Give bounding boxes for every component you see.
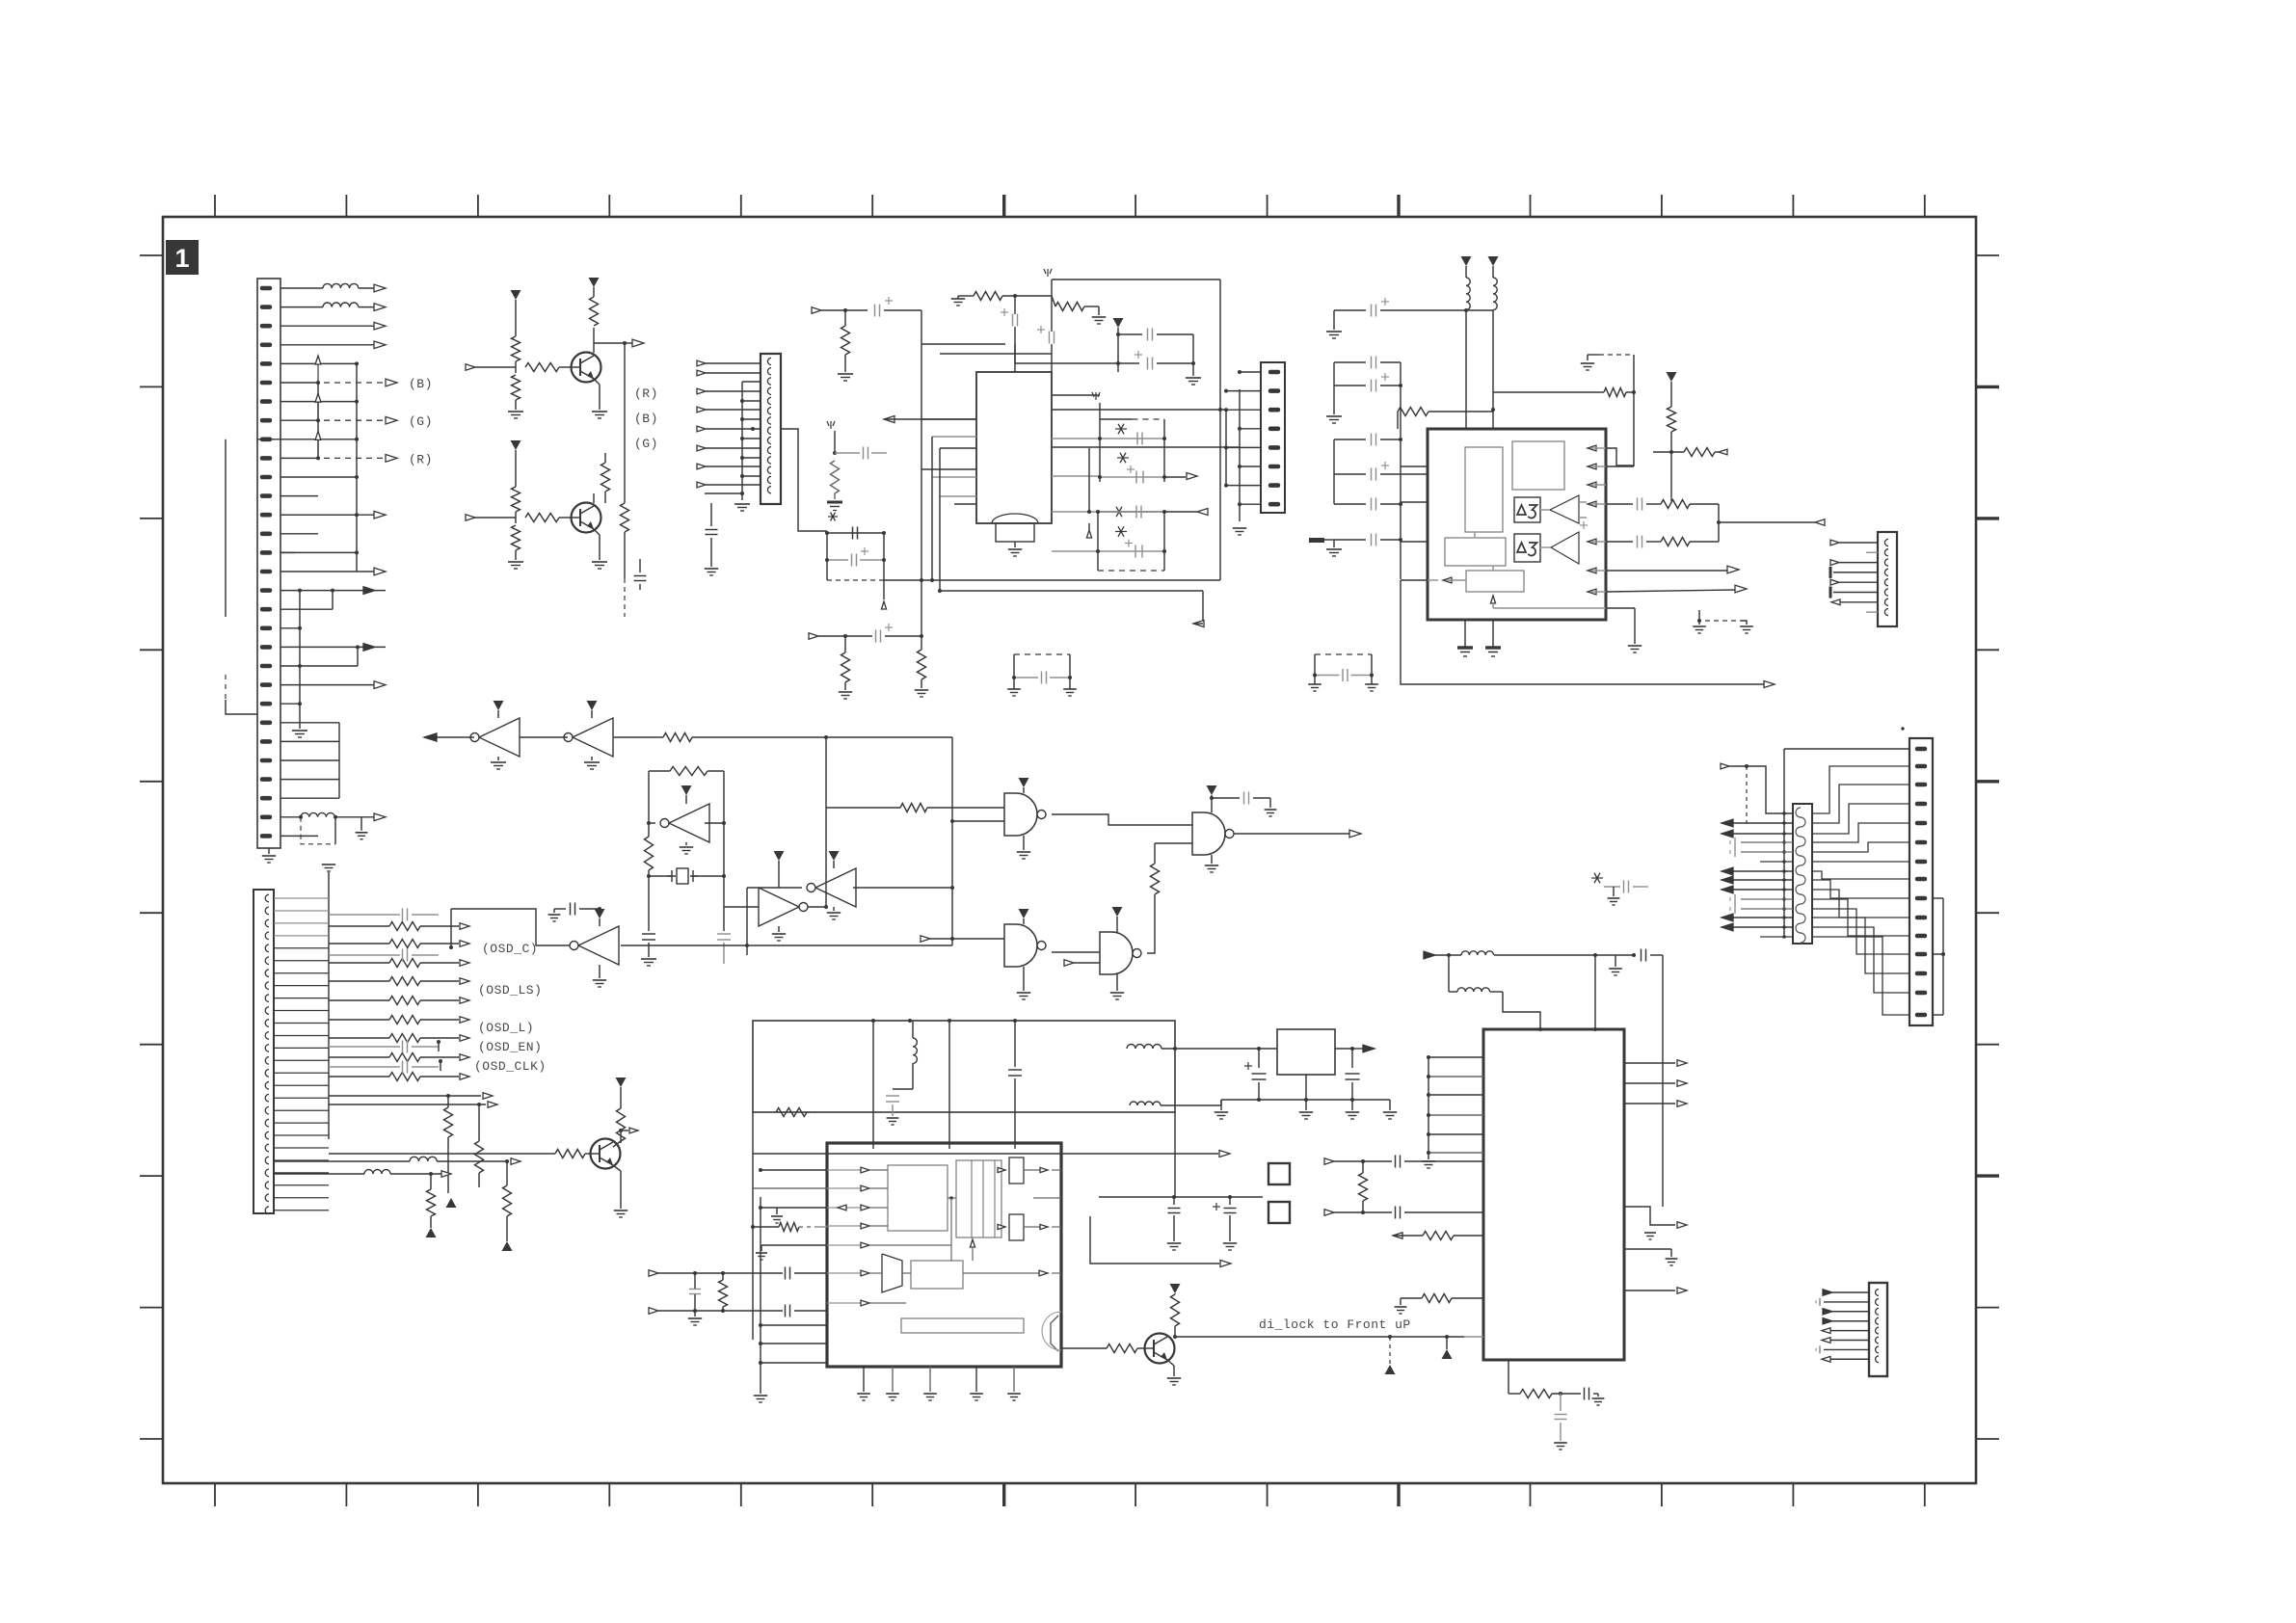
- svg-text:(OSD_C): (OSD_C): [482, 942, 538, 956]
- svg-text:di_lock to Front uP: di_lock to Front uP: [1259, 1317, 1411, 1332]
- svg-text:(G): (G): [634, 437, 658, 451]
- svg-text:(OSD_CLK): (OSD_CLK): [474, 1059, 547, 1074]
- svg-text:1: 1: [174, 244, 189, 273]
- svg-text:(G): (G): [409, 414, 433, 429]
- svg-text:(B): (B): [634, 412, 658, 426]
- svg-text:(R): (R): [409, 452, 433, 466]
- svg-text:(OSD_EN): (OSD_EN): [478, 1040, 542, 1054]
- svg-text:(OSD_LS): (OSD_LS): [478, 983, 542, 998]
- svg-text:(R): (R): [634, 386, 658, 401]
- svg-text:(OSD_L): (OSD_L): [478, 1021, 534, 1035]
- svg-text:(B): (B): [409, 377, 433, 391]
